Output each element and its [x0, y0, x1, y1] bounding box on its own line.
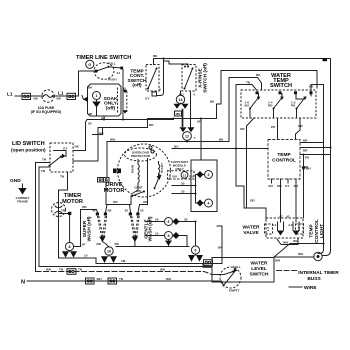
- soak only contact arrow: [92, 102, 100, 108]
- internal timer buss line: [36, 272, 213, 275]
- bottom box bus: [39, 266, 212, 268]
- contact diamond 2: [197, 171, 204, 178]
- wire gentle to 5: [145, 235, 165, 237]
- wire bus 3 elbow: [229, 78, 262, 91]
- water valve body: [266, 218, 303, 238]
- svg-text:WH: WH: [275, 259, 281, 263]
- svg-text:OR: OR: [82, 205, 87, 209]
- main winding: [133, 160, 139, 194]
- wire 8 stem: [59, 214, 70, 243]
- gentle wash switch contacts: [125, 205, 144, 243]
- water temp switch terminals: [256, 91, 259, 94]
- svg-text:6: 6: [195, 249, 197, 253]
- circled terminal 14: [176, 95, 184, 103]
- svg-text:MOTOR: MOTOR: [62, 199, 83, 205]
- connector on 6 wire: [204, 260, 213, 266]
- svg-text:SW: SW: [136, 189, 141, 193]
- svg-text:GND: GND: [10, 178, 21, 184]
- svg-text:5: 5: [194, 93, 196, 97]
- wire 3 net: [180, 221, 196, 223]
- water valve solenoid 1: [272, 218, 284, 236]
- cent sw contact: [132, 192, 144, 197]
- water temp switch contact 1: [245, 97, 261, 118]
- svg-text:5: 5: [168, 234, 170, 238]
- water level switch body: [220, 267, 241, 288]
- temp cont switch lower terminal frame: [157, 61, 164, 96]
- svg-text:(open position): (open position): [11, 148, 46, 154]
- water level contacts: [224, 273, 235, 286]
- wire timer line switch output: [122, 70, 124, 120]
- svg-text:10: 10: [107, 250, 111, 254]
- wire temp cont switch top stub: [153, 59, 155, 65]
- wire gentle wash arrow stem: [134, 242, 136, 247]
- svg-text:WIRE: WIRE: [304, 285, 317, 291]
- wire through timer motor: [58, 196, 60, 258]
- svg-text:BU: BU: [245, 104, 250, 108]
- motor lead connector: [113, 169, 117, 174]
- circled terminal 6: [191, 246, 199, 254]
- svg-text:44: 44: [117, 71, 121, 75]
- svg-text:1P: 1P: [82, 243, 86, 247]
- timer line switch terminal G: [86, 60, 94, 68]
- svg-text:BK: BK: [218, 246, 223, 250]
- contact arrows under 14: [174, 104, 181, 109]
- svg-text:BU: BU: [173, 175, 178, 179]
- svg-text:SWITCH (off): SWITCH (off): [203, 63, 209, 93]
- circled terminal 5: [165, 232, 173, 240]
- wire motor box feed: [200, 119, 202, 161]
- wire wash feed bus: [81, 209, 97, 211]
- svg-text:5: 5: [169, 175, 171, 179]
- wire motor to terminals: [172, 185, 196, 187]
- svg-text:START: START: [160, 163, 164, 173]
- svg-text:TEMP: TEMP: [277, 152, 291, 158]
- svg-text:BK: BK: [57, 96, 62, 100]
- connector CO2: [67, 93, 76, 99]
- svg-text:BK: BK: [219, 137, 224, 141]
- temp control bottom stubs: [272, 179, 289, 183]
- contact arrows under 6: [188, 255, 195, 262]
- circled terminal 10: [105, 247, 113, 255]
- svg-text:BK: BK: [153, 54, 158, 58]
- svg-text:(off): (off): [106, 105, 116, 111]
- timer motor body: [52, 203, 66, 217]
- wire wash feed drop to 8: [74, 210, 81, 247]
- svg-text:WH: WH: [46, 267, 52, 271]
- svg-text:12: 12: [185, 135, 189, 139]
- timer line switch contact: [97, 67, 122, 71]
- svg-text:TEMP: TEMP: [309, 224, 315, 238]
- wire motor to terminals 2: [172, 193, 196, 195]
- svg-text:VALVE: VALVE: [243, 230, 259, 236]
- wire terminal link: [196, 175, 197, 204]
- svg-text:BR: BR: [303, 139, 308, 143]
- wire 14 to 12 heavy: [182, 109, 184, 127]
- fuse F1 10A: [42, 90, 54, 102]
- wire valve right feed: [303, 155, 305, 219]
- svg-text:PUSH: PUSH: [108, 77, 117, 81]
- bottom collector bus: [59, 258, 97, 264]
- legend wire sample: [289, 286, 302, 288]
- drive motor body: [118, 144, 171, 197]
- wire long WH run: [107, 142, 229, 178]
- wire WTS drop PK: [277, 118, 279, 140]
- svg-text:BK: BK: [309, 85, 314, 89]
- svg-text:L1: L1: [7, 92, 13, 98]
- svg-text:8: 8: [69, 245, 71, 249]
- svg-text:PROTECTOR: PROTECTOR: [131, 154, 151, 158]
- svg-text:OR: OR: [298, 124, 303, 128]
- svg-text:OR: OR: [113, 200, 118, 204]
- svg-text:WH: WH: [110, 137, 116, 141]
- x-rinse switch contact: [185, 69, 193, 89]
- svg-text:20: 20: [140, 209, 144, 213]
- soak only left contact arrow: [83, 96, 88, 102]
- circled terminal 2: [205, 171, 213, 179]
- svg-text:WASH (off): WASH (off): [87, 216, 93, 241]
- svg-text:PK: PK: [271, 125, 276, 129]
- svg-text:1: 1: [96, 94, 98, 98]
- svg-text:BK: BK: [34, 96, 39, 100]
- wire lid switch bottom out: [59, 172, 68, 196]
- circled terminal 8: [65, 242, 73, 250]
- wire WTS right terminal to inner rail: [311, 85, 324, 143]
- wire x-rinse right drop: [190, 91, 192, 127]
- svg-text:CONTROL: CONTROL: [272, 158, 296, 164]
- wire lid switch left taps: [36, 163, 51, 272]
- contact diamond 3: [173, 218, 180, 225]
- start winding: [147, 159, 149, 199]
- wire 10 bus: [96, 263, 222, 265]
- wire bus 4 elbow: [236, 85, 257, 91]
- contact arrows under 8: [62, 251, 69, 257]
- svg-text:OR: OR: [250, 199, 255, 203]
- svg-text:SWITCH: SWITCH: [250, 272, 269, 278]
- overload terminals: [149, 146, 152, 149]
- svg-text:BR: BR: [303, 149, 308, 153]
- temp control box: [268, 140, 300, 180]
- wire L1 feed line: [15, 95, 79, 97]
- wire valve feed 1: [280, 179, 282, 218]
- circled terminal 3: [165, 218, 173, 226]
- connector pair below lid switch: [98, 178, 110, 183]
- water level switch box: [212, 258, 274, 283]
- wire BK run: [116, 246, 189, 248]
- temp cont switch contact: [148, 69, 157, 89]
- svg-text:WH: WH: [166, 277, 172, 281]
- connector N1: [86, 278, 95, 284]
- timer line switch body: [94, 63, 114, 80]
- svg-text:N: N: [21, 280, 25, 286]
- svg-text:14: 14: [179, 98, 183, 102]
- svg-text:TIMER LINE SWITCH: TIMER LINE SWITCH: [76, 55, 131, 61]
- svg-text:30: 30: [181, 182, 185, 186]
- svg-text:LID SWITCH: LID SWITCH: [12, 141, 45, 147]
- svg-text:FRAME: FRAME: [17, 199, 28, 203]
- svg-text:ONLY: ONLY: [175, 167, 184, 171]
- water valve sub box left: [265, 224, 273, 234]
- motor terminal box: [191, 160, 217, 212]
- wire super wash arrow stem: [102, 242, 109, 248]
- svg-text:BK: BK: [115, 242, 120, 246]
- water temp switch body: [241, 90, 316, 118]
- wire riser bus4 to water valve: [236, 85, 266, 221]
- contact arrows under 10: [101, 256, 108, 263]
- svg-text:30: 30: [125, 209, 129, 213]
- wire soak bottom stem: [103, 116, 105, 120]
- svg-text:LEVEL: LEVEL: [251, 266, 267, 272]
- svg-text:SWITCH: SWITCH: [270, 83, 292, 89]
- wire 12 stem: [186, 140, 188, 141]
- wire riser bus3: [228, 78, 230, 142]
- svg-text:RD: RD: [97, 242, 102, 246]
- svg-text:50: 50: [88, 122, 92, 126]
- svg-text:BUSS: BUSS: [307, 276, 321, 282]
- svg-text:BK: BK: [75, 145, 80, 149]
- svg-text:WH: WH: [298, 252, 304, 256]
- wire 6 stem: [195, 222, 197, 246]
- wire temp control BR out 2: [300, 147, 331, 149]
- svg-text:MN: MN: [176, 112, 182, 116]
- wire stair jog: [93, 128, 103, 135]
- svg-text:6: 6: [159, 88, 161, 92]
- svg-text:OR: OR: [240, 127, 245, 131]
- contact arrow below 5: [165, 241, 172, 246]
- soak bypass dashed link: [126, 91, 128, 112]
- svg-text:MAIN: MAIN: [131, 164, 135, 173]
- svg-text:10: 10: [155, 231, 159, 235]
- svg-text:RD: RD: [268, 104, 273, 108]
- svg-text:1M: 1M: [121, 259, 126, 263]
- svg-text:EMPTY: EMPTY: [229, 289, 241, 293]
- wire WL out to rail: [274, 244, 324, 258]
- start contact: [157, 175, 162, 181]
- svg-text:1-2: 1-2: [266, 226, 270, 231]
- wire stair from bus2 to lid switch: [73, 71, 221, 162]
- wire stair soak to lid switch: [73, 118, 174, 151]
- wire connector drop: [105, 182, 107, 205]
- connector tag on 14 line: [175, 111, 182, 116]
- wire WTS drop OR right: [296, 118, 301, 140]
- svg-text:WH: WH: [293, 239, 299, 243]
- svg-text:BK: BK: [210, 100, 215, 104]
- svg-text:G: G: [88, 63, 91, 67]
- svg-text:WATER: WATER: [243, 225, 261, 231]
- svg-text:WH: WH: [160, 267, 166, 271]
- svg-text:OR: OR: [294, 184, 299, 188]
- svg-text:FULL: FULL: [233, 265, 241, 269]
- svg-text:MOTOR: MOTOR: [104, 188, 125, 194]
- water valve solenoid 2: [288, 218, 300, 236]
- svg-text:20: 20: [155, 217, 159, 221]
- circled terminal 13: [181, 172, 188, 179]
- svg-text:2: 2: [208, 173, 210, 177]
- svg-text:PK: PK: [305, 156, 310, 160]
- svg-text:20: 20: [181, 190, 185, 194]
- contact diamond 5: [173, 232, 180, 239]
- x-rinse switch body: [182, 65, 196, 92]
- connector CO1: [22, 93, 31, 99]
- wire temp control PK out: [300, 154, 331, 156]
- wire temp control BR out 1: [300, 142, 324, 144]
- legend buss sample: [276, 270, 298, 272]
- svg-text:47: 47: [279, 214, 283, 218]
- wire WTS drop OR to valve: [247, 118, 255, 208]
- svg-text:OR: OR: [197, 120, 202, 124]
- water temp switch contact 3: [291, 97, 307, 118]
- contact diamond 4: [197, 200, 204, 207]
- wire bus 2: [221, 71, 317, 89]
- wire 14 to x-rinse: [180, 91, 182, 95]
- temp cont switch body: [146, 65, 159, 92]
- wire inner rail to light: [318, 143, 324, 254]
- soak only switch box: [88, 84, 122, 116]
- water valve sub box right: [296, 224, 304, 234]
- svg-text:WH: WH: [283, 241, 289, 245]
- soak only terminal 1: [93, 92, 101, 100]
- svg-text:3: 3: [168, 220, 170, 224]
- svg-text:BU: BU: [190, 175, 195, 179]
- circled terminal 12: [183, 132, 192, 141]
- svg-text:OR: OR: [277, 184, 282, 188]
- svg-text:LIGHT: LIGHT: [319, 224, 325, 238]
- svg-text:13: 13: [183, 173, 187, 177]
- contact arrows above 12: [180, 127, 187, 132]
- svg-text:42: 42: [286, 214, 290, 218]
- wire top bus 1: [154, 59, 331, 256]
- svg-text:WH: WH: [303, 165, 309, 169]
- svg-text:WATER: WATER: [251, 261, 269, 267]
- svg-text:BU: BU: [269, 184, 274, 188]
- wire riser to timer line switch: [79, 71, 95, 96]
- wire WTS contact elbows: [259, 94, 312, 100]
- overload protector bubble: [125, 148, 157, 161]
- svg-text:L1: L1: [58, 90, 64, 96]
- ground arrow symbol: [22, 184, 24, 188]
- super wash switch contacts: [92, 205, 112, 247]
- wire right drop: [217, 226, 222, 264]
- svg-text:BK: BK: [256, 73, 261, 77]
- svg-text:1-2: 1-2: [297, 226, 301, 231]
- svg-text:PULL: PULL: [108, 62, 116, 66]
- svg-text:RD: RD: [149, 123, 154, 127]
- wire x-rinse feed branch: [164, 59, 189, 67]
- svg-text:BU: BU: [174, 144, 179, 148]
- svg-text:INTERNAL TIMER: INTERNAL TIMER: [298, 270, 339, 276]
- wire WL switch entry: [203, 264, 212, 268]
- lid switch body: [50, 143, 73, 172]
- svg-text:OR: OR: [143, 200, 148, 204]
- svg-text:4-2: 4-2: [288, 223, 293, 227]
- wire BU run to temp control: [172, 148, 268, 150]
- circled terminal 4: [205, 199, 213, 207]
- temp control light lamp: [314, 252, 322, 260]
- wire valve feed 2: [295, 179, 297, 218]
- wire lamp to WL box: [274, 256, 314, 258]
- wire 5 net: [180, 236, 188, 247]
- svg-text:WH: WH: [97, 277, 103, 281]
- svg-text:BK: BK: [88, 86, 93, 90]
- connector on buss: [67, 269, 76, 275]
- connector N2: [108, 278, 117, 284]
- svg-text:4: 4: [208, 202, 210, 206]
- wire gentle to 3: [145, 221, 165, 223]
- water temp switch contact 2: [268, 97, 284, 118]
- neutral bus: [27, 280, 222, 282]
- lid switch internals: [54, 151, 67, 157]
- svg-text:10: 10: [84, 254, 88, 258]
- svg-text:CONTROL: CONTROL: [314, 219, 320, 243]
- svg-text:WASH (off): WASH (off): [148, 216, 154, 241]
- svg-text:PK: PK: [291, 104, 296, 108]
- svg-text:30: 30: [184, 217, 188, 221]
- cap start module row: [168, 171, 195, 179]
- svg-text:(IF SO EQUIPPED): (IF SO EQUIPPED): [31, 110, 62, 114]
- wire valve outlet tie: [277, 239, 298, 245]
- svg-text:(off): (off): [132, 83, 142, 89]
